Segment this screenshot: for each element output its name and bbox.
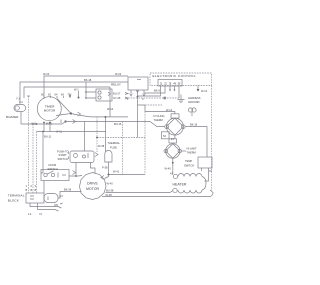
- wire relay to thermostat feed: [138, 105, 163, 112]
- wire BK-16 cycling thermostat to cutoff: [186, 123, 208, 158]
- svg-text:DOOR: DOOR: [49, 163, 57, 167]
- wire dashed right edge: [211, 86, 213, 191]
- timer motor M1: [37, 97, 61, 121]
- power lead N: [38, 203, 59, 216]
- svg-text:W-22: W-22: [43, 72, 50, 76]
- svg-text:1 2 3 4 5: 1 2 3 4 5: [160, 82, 182, 86]
- wire neutral bus y124: [21, 122, 66, 126]
- timer bottom terminals 56 58: [43, 120, 62, 139]
- wire labels BU-27 GY-28 with connector arrows: [113, 92, 128, 101]
- svg-text:W-14: W-14: [166, 108, 173, 112]
- electronic control U1 dashed enclosure: [150, 73, 212, 86]
- svg-text:N: N: [40, 212, 42, 216]
- timer cam switch wedge: [56, 99, 72, 123]
- svg-text:TERMINAL: TERMINAL: [8, 194, 25, 198]
- hi-limit thermostat TH2: [164, 137, 197, 158]
- wire twist loop glyph: [188, 108, 196, 116]
- svg-text:DRIVE: DRIVE: [87, 181, 98, 185]
- svg-text:B: B: [26, 188, 28, 192]
- svg-text:SWITCH: SWITCH: [58, 157, 68, 161]
- wire BK-36 motor to terminal block: [58, 188, 82, 199]
- svg-text:THERMAL: THERMAL: [108, 141, 121, 145]
- svg-text:BU-38: BU-38: [106, 189, 114, 193]
- svg-text:W-40: W-40: [165, 167, 172, 171]
- svg-text:THERM: THERM: [187, 150, 196, 154]
- wire W-14 to cycling thermostat top: [145, 108, 175, 114]
- svg-text:BU-11: BU-11: [44, 135, 52, 139]
- wire temp switch to heater coil: [205, 171, 209, 181]
- svg-text:2: 2: [31, 184, 33, 188]
- svg-text:BK-18: BK-18: [84, 78, 92, 82]
- push-to-start switch S2: [57, 150, 98, 163]
- wire W-41 cross to motor: [101, 170, 145, 180]
- svg-text:BK-9: BK-9: [154, 89, 160, 93]
- svg-text:SWITCH: SWITCH: [184, 164, 194, 168]
- svg-text:66: 66: [61, 93, 64, 97]
- svg-text:W-1: W-1: [74, 88, 79, 92]
- svg-text:W-38: W-38: [98, 144, 105, 148]
- svg-text:L1: L1: [28, 212, 32, 216]
- wire junction drop x110: [109, 87, 111, 117]
- wire W-40 hi-limit to heater: [165, 158, 174, 174]
- wire to door switch: [41, 132, 43, 174]
- svg-text:62: 62: [48, 93, 51, 97]
- svg-text:GY-28: GY-28: [113, 96, 121, 100]
- thermal fuse F1: [105, 141, 121, 162]
- terminal block TB1: [8, 184, 58, 203]
- timer top terminals 60 62 64 66 TM: [41, 93, 71, 100]
- wire stub to motor switch box terminals: [85, 82, 87, 99]
- temp switch S4: [184, 157, 212, 173]
- timer terminal node W-1: [74, 88, 80, 99]
- cycling thermostat TH1: [153, 114, 185, 135]
- svg-text:43: 43: [209, 169, 212, 173]
- cycling thermostat terminal box 52: [162, 132, 170, 139]
- buzzer BZ1: [6, 97, 26, 119]
- control connector J1 pins 1-5: [158, 80, 182, 92]
- svg-text:SWITCH: SWITCH: [48, 167, 58, 171]
- relay K1: [111, 77, 148, 90]
- wire W-38 cross y137: [96, 137, 145, 148]
- wire dashed control pin 5 run: [128, 90, 179, 100]
- wire drop x122: [122, 122, 124, 175]
- svg-text:W-14: W-14: [107, 107, 114, 111]
- svg-text:GROUND: GROUND: [188, 100, 200, 104]
- wire W-22 timer terminal 60 to relay: [43, 72, 128, 97]
- svg-text:MOTOR: MOTOR: [86, 187, 99, 191]
- svg-text:START: START: [59, 153, 68, 157]
- drive motor M2: [80, 173, 107, 200]
- svg-text:Y-1: Y-1: [16, 97, 20, 101]
- svg-text:CYCLING: CYCLING: [153, 114, 165, 118]
- wire neutral riser to terminal block: [32, 124, 34, 193]
- svg-text:W-38: W-38: [106, 193, 113, 197]
- svg-text:Y-2: Y-2: [19, 100, 23, 104]
- wire relay terminal 2 down: [137, 96, 139, 138]
- svg-text:W-22: W-22: [115, 72, 122, 76]
- svg-text:W-41: W-41: [113, 170, 120, 174]
- svg-text:Y-11: Y-11: [31, 122, 37, 126]
- svg-text:PUSH-TO: PUSH-TO: [57, 150, 69, 154]
- wire buzzer to neutral bus: [20, 112, 22, 124]
- wire buzzer inner loop: [24, 87, 110, 98]
- svg-text:B: B: [31, 188, 33, 192]
- svg-text:THERM: THERM: [154, 118, 163, 122]
- wire dashed drop x145: [144, 112, 146, 175]
- svg-text:BU-1: BU-1: [46, 122, 52, 126]
- svg-text:HARNESS: HARNESS: [188, 96, 201, 100]
- svg-text:64: 64: [55, 93, 58, 97]
- svg-text:BK-36: BK-36: [64, 188, 72, 192]
- wire BU-16 timer to cycling thermostat: [66, 120, 165, 127]
- svg-text:HEATER: HEATER: [173, 183, 187, 187]
- svg-text:BUZZER: BUZZER: [6, 115, 19, 119]
- wire door switch to block: [44, 181, 64, 199]
- svg-text:TEMP: TEMP: [185, 159, 192, 163]
- svg-text:W-40: W-40: [107, 182, 114, 186]
- svg-text:BU-27: BU-27: [113, 92, 121, 96]
- svg-text:MOTOR: MOTOR: [44, 109, 56, 113]
- svg-text:1: 1: [26, 184, 28, 188]
- wire door switch row to motor: [69, 171, 82, 177]
- wire W-14 timer cam to node A: [71, 107, 128, 118]
- wire drop x97 to start switch: [96, 117, 98, 152]
- control ground arrow: [197, 86, 200, 92]
- svg-text:FUSE: FUSE: [110, 146, 117, 150]
- chassis ground harness: [178, 89, 208, 104]
- wire W-38 motor to heater return: [102, 182, 213, 198]
- wire cycling to hi-limit: [174, 135, 176, 139]
- svg-text:GY: GY: [60, 194, 64, 198]
- wire drop x84 to start switch: [84, 122, 86, 152]
- svg-text:RELAY: RELAY: [111, 83, 121, 87]
- relay bottom terminals 1 2 3: [127, 90, 145, 101]
- wire bus y131: [37, 131, 107, 133]
- wire start switch to motor top: [91, 163, 96, 174]
- wire BU-38 heater to motor: [106, 189, 173, 193]
- wire L1 riser to terminal block: [27, 96, 30, 193]
- svg-text:W-14: W-14: [201, 89, 208, 93]
- svg-text:3: 3: [142, 97, 144, 101]
- svg-text:P-38: P-38: [102, 166, 108, 170]
- svg-text:BU-16: BU-16: [114, 122, 122, 126]
- svg-text:BK-16: BK-16: [190, 123, 198, 127]
- motor ground label GN: [54, 203, 63, 207]
- door switch S1: [41, 163, 69, 181]
- heater element HE1: [170, 172, 206, 194]
- wire bus riser to terminal block: [36, 132, 38, 194]
- wire BK-18 buzzer loop to motor switch box: [20, 78, 128, 104]
- power lead L1: [28, 203, 62, 216]
- wire start switch to door row: [75, 163, 77, 177]
- svg-text:B: B: [35, 188, 37, 192]
- motor centrifugal switch box S3: [86, 89, 112, 101]
- wire BK-9 pin 1 to relay: [138, 89, 161, 97]
- svg-text:HI-LIMIT: HI-LIMIT: [187, 146, 198, 150]
- wire P-38 fuse to node B: [102, 162, 109, 175]
- wire pin 2 to relay terminal 3: [144, 90, 165, 94]
- svg-text:52: 52: [163, 134, 166, 138]
- svg-text:BLOCK: BLOCK: [8, 199, 20, 203]
- svg-text:ELECTRONIC CONTROL: ELECTRONIC CONTROL: [153, 74, 197, 78]
- wire drop x106 to thermal fuse: [105, 117, 107, 152]
